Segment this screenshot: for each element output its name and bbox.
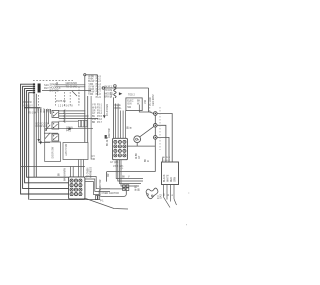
control box U1 text — [127, 99, 140, 108]
label left of M1 — [136, 185, 141, 191]
connector P1 pins — [33, 83, 35, 93]
svg-text:RED: RED — [171, 177, 173, 182]
svg-text:RED 60HZ: RED 60HZ — [152, 94, 155, 106]
label to harness — [56, 81, 78, 88]
pin boxes row — [78, 120, 87, 127]
dashed line terminals left — [149, 104, 151, 111]
wire vertical x91.1 — [90, 96, 92, 160]
component R1 box — [99, 189, 126, 197]
svg-text:P1-9: P1-9 — [96, 96, 102, 99]
dashed enclosure v3 — [69, 92, 71, 107]
svg-text:P2-4 OVEN: P2-4 OVEN — [107, 104, 109, 116]
block J2 feed 3 — [120, 111, 122, 139]
label latch vertical — [65, 143, 68, 156]
wire T3 bottom — [154, 139, 156, 171]
svg-text:BR: BR — [92, 122, 96, 124]
label sensor vertical — [111, 91, 113, 98]
wire vertical from node A — [84, 76, 86, 143]
arrow down 2 — [40, 109, 42, 142]
switch S2 — [52, 122, 59, 129]
wire diagonal stub — [72, 91, 77, 96]
label row above terminal block — [162, 157, 170, 162]
svg-text:GY: GY — [139, 155, 141, 159]
wire TB1 tail 2 — [174, 199, 177, 205]
wire left bus line 2 — [23, 86, 69, 188]
wire J1 step b — [85, 179, 110, 191]
wire double line upper — [55, 84, 85, 86]
latch box — [63, 143, 88, 160]
wire mark y142.5 — [39, 142, 51, 144]
wire stub J1 feed 4 — [80, 160, 82, 177]
svg-text:DOOR SW: DOOR SW — [52, 146, 55, 158]
wire diagonal from J1 — [85, 198, 128, 209]
svg-text:T-BK: T-BK — [88, 94, 94, 96]
wire J2 step 3 — [119, 160, 141, 184]
svg-text:Y-R: Y-R — [92, 105, 96, 107]
svg-text:W-BK: W-BK — [136, 185, 138, 191]
svg-text:SENS: SENS — [111, 91, 113, 98]
relay board label — [44, 83, 61, 93]
wire node B drop — [103, 89, 105, 115]
label row mid — [24, 102, 34, 107]
ribbon wire 1 — [59, 110, 86, 112]
svg-text:GY (2X): GY (2X) — [110, 162, 118, 164]
label near latch — [92, 156, 96, 161]
wire horizontal y166.5 — [21, 166, 85, 168]
wire B1 diagonal — [140, 127, 154, 137]
svg-text:OVEN IGNITOR: OVEN IGNITOR — [102, 192, 120, 195]
node A — [84, 74, 86, 76]
connector J1 contacts — [70, 179, 82, 196]
label under J2 — [110, 162, 124, 171]
dashed enclosure v4 — [78, 92, 80, 107]
block J2 feed 2 — [117, 104, 119, 139]
wire bus line 5 — [29, 93, 33, 200]
wire stub J1 feed 3 — [78, 160, 80, 177]
svg-text:P5-1 BK: P5-1 BK — [28, 113, 37, 115]
wire y133.2 — [44, 132, 58, 134]
wire left bus line 4 — [27, 91, 69, 178]
wire node A to right — [86, 74, 98, 76]
wire J2 step 1 — [116, 160, 143, 179]
wire TB1 lead 2 — [166, 185, 168, 200]
motor squiggle M1 — [146, 188, 158, 199]
wire top feed — [105, 87, 149, 89]
label near x137 — [136, 153, 150, 162]
wire TB1 lead 1 — [163, 185, 165, 198]
wire label column 3 — [92, 105, 103, 124]
wire T2-T3 — [154, 127, 156, 136]
wire vertical x50.6 — [50, 109, 52, 114]
svg-text:BK: BK — [139, 187, 141, 191]
dashed line mid — [37, 95, 39, 107]
wire vertical x44.7 — [44, 109, 46, 142]
wire TB1 lead 4 — [173, 185, 175, 200]
svg-text:TOD 2: TOD 2 — [128, 95, 135, 97]
svg-text:BK R W: BK R W — [24, 102, 33, 104]
wire vertical x94.6 — [97, 75, 99, 96]
wire horizontal y199.6 — [30, 199, 99, 201]
wire vertical x33.9 — [33, 94, 35, 177]
wire label column 1 — [88, 76, 95, 96]
svg-text:W-BK: W-BK — [136, 153, 138, 159]
svg-text:OVN: OVN — [41, 107, 43, 112]
speck 2 — [186, 224, 187, 225]
svg-text:L1 N L2: L1 N L2 — [162, 160, 170, 162]
switch blade 2 — [45, 133, 51, 139]
label above y177 — [59, 172, 61, 176]
wire horizontal y90.5 — [42, 90, 91, 92]
wire T2 right leg — [157, 125, 166, 162]
door switch S5 — [45, 142, 61, 162]
switch S1 — [52, 110, 59, 117]
wire label column 2 — [96, 75, 102, 99]
wire J1 step a — [85, 177, 110, 189]
mark x105 — [105, 135, 107, 139]
svg-text:LATCH SW: LATCH SW — [65, 143, 68, 156]
svg-text:P4-2: P4-2 — [66, 130, 72, 132]
svg-text:GAS: GAS — [160, 194, 163, 199]
wire horizontal y171.6 — [107, 171, 156, 173]
svg-text:WHITE: WHITE — [167, 174, 169, 182]
svg-text:P3-4: P3-4 — [97, 113, 103, 115]
svg-text:BK: BK — [59, 172, 61, 176]
connector block J2 — [113, 138, 128, 159]
wire right edge down — [149, 88, 154, 114]
wire stub J1 feed 1 — [69, 167, 71, 177]
svg-text:TO CHAS: TO CHAS — [66, 85, 78, 89]
svg-text:NO NC COM: NO NC COM — [36, 123, 49, 125]
svg-text:1 2 3 4 5 6 7 8: 1 2 3 4 5 6 7 8 — [58, 106, 73, 108]
control box U1 — [126, 98, 142, 111]
svg-text:OR: OR — [92, 110, 96, 112]
arrow marker — [119, 92, 122, 95]
svg-text:IGNITOR: IGNITOR — [109, 128, 111, 138]
label cluster row — [36, 123, 49, 128]
node B — [102, 87, 104, 89]
svg-text:150: 150 — [144, 99, 147, 104]
terminal T1 — [154, 112, 158, 116]
label right of M1 — [158, 194, 163, 199]
plug marks — [96, 196, 100, 200]
svg-text:OR: OR — [92, 159, 96, 161]
wire vertical x106.6 — [106, 172, 108, 182]
label J2 above — [128, 125, 133, 129]
label J1 left — [64, 168, 67, 181]
load circle B1 — [134, 136, 141, 143]
sensor lead down — [113, 97, 115, 138]
label bus row2 — [28, 113, 37, 115]
svg-text:OR: OR — [108, 173, 110, 177]
svg-text:BK: BK — [122, 177, 126, 179]
wire T1 right leg — [157, 114, 172, 163]
wire J1 step c — [85, 182, 99, 195]
dashed enclosure v2 — [64, 92, 66, 107]
svg-text:P3-7: P3-7 — [97, 122, 103, 124]
svg-text:BU: BU — [92, 116, 96, 118]
connector J2 contacts — [114, 140, 126, 157]
svg-text:CONN: CONN — [66, 128, 73, 130]
svg-text:P4 P5 P6: P4 P5 P6 — [56, 101, 66, 103]
wire U1 to T1 — [139, 105, 151, 113]
label rows near feed — [105, 86, 114, 98]
wire TB1 feed 4 — [162, 158, 164, 163]
wire vertical x88.6 — [87, 96, 89, 143]
ribbon wire 2 — [59, 112, 86, 114]
svg-text:DOOR LCK: DOOR LCK — [36, 126, 48, 128]
svg-text:GY: GY — [92, 113, 96, 115]
label above steps — [122, 177, 130, 179]
wire T3 down leg — [157, 137, 169, 162]
svg-text:BK: BK — [128, 125, 130, 129]
ribbon wire 4 — [59, 118, 98, 120]
ribbon chevrons — [63, 110, 65, 123]
label door vertical — [52, 146, 55, 158]
wire left bus line 1 — [21, 84, 69, 194]
switch S3 — [52, 134, 59, 141]
label under TB1 — [164, 193, 174, 196]
svg-text:BK: BK — [145, 158, 147, 162]
svg-text:P3-5: P3-5 — [97, 116, 103, 118]
wire vertical x48.6 — [48, 109, 50, 124]
svg-text:P3-3: P3-3 — [97, 110, 103, 112]
ribbon wire 5 — [59, 120, 79, 122]
svg-text:GY: GY — [92, 156, 96, 158]
svg-text:RLY: RLY — [44, 86, 49, 90]
label in box — [128, 95, 135, 97]
label J1 right — [88, 166, 93, 178]
svg-text:P3-2: P3-2 — [97, 107, 103, 109]
dashed line right — [78, 87, 80, 105]
label J2 left — [109, 128, 111, 138]
label mid small — [66, 128, 73, 133]
label L1 feed — [144, 94, 155, 106]
motor contacts — [147, 194, 149, 196]
svg-text:BRN: BRN — [105, 97, 110, 99]
svg-text:P3-1: P3-1 — [97, 105, 103, 107]
svg-text:MAIN HARN: MAIN HARN — [64, 168, 67, 181]
connector block J1 — [69, 177, 85, 199]
wire vertical x46.6 — [46, 109, 48, 131]
terminal T3 — [154, 136, 158, 140]
svg-text:BK-R 2: BK-R 2 — [105, 86, 113, 88]
relay board K1 — [38, 84, 41, 93]
label vertical x107.5 low — [107, 136, 109, 146]
dashed enclosure top — [33, 80, 73, 82]
sensor coil — [114, 87, 116, 97]
wire y128.7 with arrow — [45, 128, 93, 130]
wire T1-T2 — [154, 115, 156, 123]
svg-text:P3-6: P3-6 — [97, 119, 103, 121]
svg-text:GROUND: GROUND — [66, 81, 78, 85]
terminal T2 — [154, 124, 158, 128]
wire stub J1 feed 2 — [72, 167, 74, 177]
connector marks on wires — [123, 185, 129, 191]
label OR — [108, 173, 110, 177]
arrow down node B — [103, 115, 106, 118]
wire vertical x35.9 — [35, 94, 37, 177]
wire B1 stub — [136, 143, 138, 147]
block J2 feed 5 — [125, 111, 127, 139]
dashed enclosure v1 — [54, 92, 56, 107]
switch blade 1 — [45, 125, 51, 131]
wire dark band y107.8 — [24, 107, 41, 109]
terminal block TB1 labels — [163, 174, 177, 182]
sensor probe circle — [114, 85, 117, 88]
dashed enclosure left — [33, 95, 35, 104]
block J2 feed 4 — [122, 111, 124, 139]
label right of arrow — [107, 104, 109, 116]
wire J2 step 4 — [121, 160, 139, 186]
ribbon wire 3 — [59, 115, 89, 117]
wire stub J1 feed 5 — [83, 160, 85, 177]
wire horizontal y146 — [128, 145, 156, 147]
wire J2 step 2 — [118, 160, 143, 181]
svg-text:BLACK: BLACK — [163, 174, 166, 182]
wire left bus line 3 — [25, 88, 69, 182]
svg-text:GRN: GRN — [175, 177, 177, 182]
wire TB1 tail 1 — [164, 197, 171, 208]
block J2 feed 1 — [115, 104, 117, 139]
label bake broil — [115, 104, 123, 110]
wire TB1 lead 3 — [170, 185, 172, 202]
speck 1 — [188, 193, 189, 194]
dashed line terminals — [159, 107, 161, 150]
terminal block TB1 — [162, 162, 179, 185]
wire double line lower — [55, 86, 85, 88]
arrow down 1 — [38, 109, 40, 140]
label lock motor — [100, 179, 102, 195]
label under R1 — [100, 201, 104, 203]
